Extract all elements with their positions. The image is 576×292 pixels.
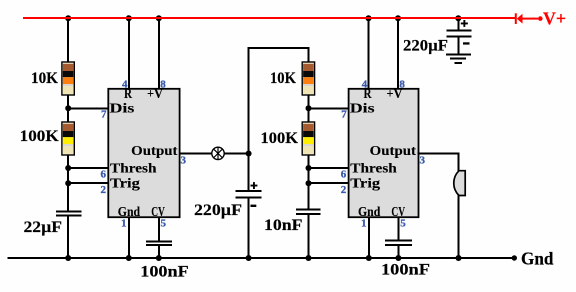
lamp LP1 xyxy=(212,147,224,159)
node: pin8 U2 on rail xyxy=(395,15,401,21)
Gnd terminal dot xyxy=(512,255,517,260)
node: Dis2 junction xyxy=(306,105,312,111)
pin number 1 xyxy=(121,217,127,229)
pin number 2 xyxy=(101,184,107,196)
label U2 pin Dis xyxy=(350,101,375,116)
svg-text:10K: 10K xyxy=(270,70,296,87)
node: C4 / ground rail xyxy=(306,255,312,261)
wire: C4 to ground rail xyxy=(308,215,310,259)
pin number 5 xyxy=(161,217,167,229)
node: Trig2 junction xyxy=(306,180,312,186)
label U2 pin Output xyxy=(370,143,417,158)
wire: R2 down to C1 with Thresh and Trig taps xyxy=(67,155,69,211)
svg-text:8: 8 xyxy=(160,79,166,91)
wire: U1 pin8 +V to rail xyxy=(158,17,160,89)
wire: C1 to ground rail xyxy=(67,216,69,258)
speaker LS1 xyxy=(454,171,465,196)
wire: U1 pin1 Gnd to rail xyxy=(128,217,130,258)
op-amp U2 555 timer body xyxy=(349,89,419,217)
label C5 value 100nF xyxy=(381,261,430,278)
capacitor C2 100nF plates xyxy=(146,241,172,245)
wire: Thresh pin 6 to U1 xyxy=(67,167,108,169)
wire: Dis pin 7 to U2 xyxy=(308,107,349,109)
wire: C3 to ground rail xyxy=(248,197,250,258)
label U2 pin +V xyxy=(387,86,403,101)
resistor R3 10K xyxy=(302,62,314,95)
pin number 6 (U2) xyxy=(341,168,347,180)
pin number 4 xyxy=(122,79,128,91)
label C2 value 100nF xyxy=(140,264,189,281)
svg-text:6: 6 xyxy=(101,168,107,180)
wire: Trig pin 2 to U2 xyxy=(308,182,349,184)
label U1 pin Trig xyxy=(110,175,140,190)
pin number 8 (U2) xyxy=(399,79,405,91)
capacitor C5 100nF plates xyxy=(385,241,412,245)
resistor R2 100K xyxy=(62,122,74,155)
label U2 pin Gnd xyxy=(358,204,381,219)
V+ terminal arrow xyxy=(516,13,543,24)
label R4 value 100K xyxy=(261,130,299,147)
pin number 3 xyxy=(181,154,187,166)
wire: U1 pin4 R to V+ rail xyxy=(128,17,130,89)
label V+ xyxy=(543,9,566,29)
wire: U2 pin8 +V to rail xyxy=(397,17,399,89)
pin number 7 (U2) xyxy=(341,108,347,120)
node: Dis junction xyxy=(65,105,71,111)
label U2 pin Thresh xyxy=(350,161,397,176)
svg-text:Trig: Trig xyxy=(350,175,380,190)
node: pin1 on ground rail xyxy=(126,255,132,261)
node: pin4 on rail xyxy=(126,15,132,21)
wire: V+ rail to C6 xyxy=(457,17,459,30)
wire: lamp to mid node xyxy=(224,153,249,155)
svg-text:7: 7 xyxy=(101,108,107,120)
label R1 value 10K xyxy=(31,70,59,87)
label C3 value 220uF xyxy=(194,202,242,219)
capacitor C1 22uF plates xyxy=(56,211,81,215)
node: pin5 wire on ground rail xyxy=(156,255,162,261)
wire: R4 down to C4 with Thresh and Trig taps xyxy=(308,155,310,210)
svg-text:22µF: 22µF xyxy=(24,219,63,236)
wire: mid node down to C3 xyxy=(248,154,250,192)
svg-text:2: 2 xyxy=(341,184,347,196)
node: V+ rail / R1 junction xyxy=(65,15,71,21)
node: C6 on rail xyxy=(455,15,461,21)
capacitor C4 10nF plates xyxy=(296,210,320,214)
label U2 pin CV xyxy=(391,204,405,219)
svg-text:220µF: 220µF xyxy=(194,202,242,219)
pin number 8 xyxy=(160,79,166,91)
svg-text:7: 7 xyxy=(341,108,347,120)
op-amp U1 555 timer body xyxy=(108,89,179,217)
svg-text:1: 1 xyxy=(361,217,367,229)
svg-text:3: 3 xyxy=(181,154,187,166)
svg-text:5: 5 xyxy=(161,217,167,229)
wire: R1 to R2 with Dis tap xyxy=(67,95,69,123)
pin number 6 xyxy=(101,168,107,180)
label C4 value 10nF xyxy=(264,217,303,234)
node: pin8 on rail xyxy=(156,15,162,21)
label C1 value 22uF xyxy=(24,219,63,236)
svg-text:Thresh: Thresh xyxy=(350,161,397,176)
wire: U1 pin5 CV down to rail xyxy=(158,217,160,258)
svg-text:10nF: 10nF xyxy=(264,217,303,234)
svg-text:100nF: 100nF xyxy=(140,264,189,281)
label U1 pin +V xyxy=(147,86,163,101)
pin number 7 xyxy=(101,108,107,120)
node: pin5 U2 wire on ground rail xyxy=(395,255,401,261)
label U1 pin Gnd xyxy=(118,204,141,219)
svg-text:V+: V+ xyxy=(543,9,566,29)
node: pin4 U2 on rail xyxy=(366,15,372,21)
wire: Trig pin 2 to U1 xyxy=(67,182,108,184)
pin number 5 (U2) xyxy=(400,217,406,229)
svg-text:Output: Output xyxy=(131,143,178,158)
svg-text:4: 4 xyxy=(122,79,128,91)
node: pin1 U2 on ground rail xyxy=(366,255,372,261)
node: C1 / ground rail xyxy=(65,255,71,261)
svg-text:Gnd: Gnd xyxy=(521,248,554,268)
node: C3 / ground rail xyxy=(246,255,252,261)
capacitor C3 220uF plates (polarized) xyxy=(236,182,262,207)
svg-text:Thresh: Thresh xyxy=(110,161,157,176)
label U1 pin Output xyxy=(131,143,178,158)
pin number 4 (U2) xyxy=(362,79,368,91)
wire: stage1 column top from V+ rail to R1 xyxy=(67,17,69,63)
wire: U2 pin1 Gnd to rail xyxy=(368,217,370,258)
wire: Dis pin 7 to U1 xyxy=(67,107,108,109)
resistor R1 10K xyxy=(62,62,74,95)
svg-text:100nF: 100nF xyxy=(381,261,430,278)
svg-text:100K: 100K xyxy=(261,130,299,147)
node: speaker column / ground rail xyxy=(456,255,462,261)
ground rail (bottom, Gnd net) xyxy=(8,257,513,259)
label Gnd xyxy=(521,248,554,268)
wire: U2 pin5 CV down to rail xyxy=(397,217,399,258)
power rail V+ (red, drawn over junction dots) xyxy=(23,17,516,19)
label U1 pin Dis xyxy=(110,101,135,116)
label U2 pin R xyxy=(364,86,372,101)
svg-text:5: 5 xyxy=(400,217,406,229)
svg-text:3: 3 xyxy=(420,154,426,166)
svg-text:Output: Output xyxy=(370,143,417,158)
wire: Thresh pin 6 to U2 xyxy=(308,167,349,169)
label U1 pin Thresh xyxy=(110,161,157,176)
label R3 value 10K xyxy=(270,70,296,87)
svg-text:Dis: Dis xyxy=(110,101,135,116)
resistor R4 100K xyxy=(302,122,314,155)
node: Trig junction xyxy=(65,180,71,186)
capacitor C6 220uF plates (polarized) xyxy=(447,20,472,45)
svg-text:220µF: 220µF xyxy=(403,38,448,55)
wire: U2 pin3 output to speaker column xyxy=(418,154,459,259)
pin number 2 (U2) xyxy=(341,184,347,196)
svg-text:10K: 10K xyxy=(31,70,59,87)
wire: U2 pin4 R to V+ rail xyxy=(368,17,370,89)
svg-text:Dis: Dis xyxy=(350,101,375,116)
pin number 1 (U2) xyxy=(361,217,367,229)
wire: stage2 column top from link to R3 xyxy=(308,47,310,63)
pin number 3 (U2) xyxy=(420,154,426,166)
wire: U1 pin3 output to lamp xyxy=(179,153,212,155)
label U1 pin R xyxy=(124,86,132,101)
node: mid column junction xyxy=(246,151,252,157)
svg-text:2: 2 xyxy=(101,184,107,196)
label U2 pin Trig xyxy=(350,175,380,190)
svg-text:8: 8 xyxy=(399,79,405,91)
ground symbol xyxy=(446,54,471,63)
node: Thresh2 junction xyxy=(306,165,312,171)
svg-text:1: 1 xyxy=(121,217,127,229)
svg-text:4: 4 xyxy=(362,79,368,91)
label R2 value 100K xyxy=(20,128,60,145)
node: Thresh junction xyxy=(65,165,71,171)
label U1 pin CV xyxy=(151,204,165,219)
wire: C6 to ground symbol xyxy=(457,37,459,54)
wire: mid column up and over to stage2 RC xyxy=(249,48,310,155)
label C6 value 220uF xyxy=(403,38,448,55)
wire: R3 to R4 with Dis tap xyxy=(308,95,310,123)
svg-text:6: 6 xyxy=(341,168,347,180)
svg-text:Trig: Trig xyxy=(110,175,140,190)
svg-text:100K: 100K xyxy=(20,128,60,145)
